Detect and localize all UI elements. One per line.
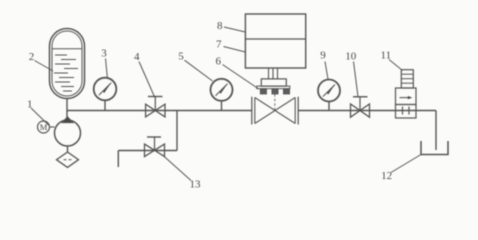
- gauge 3: [94, 78, 117, 111]
- svg-text:10: 10: [345, 51, 357, 63]
- throttle valve 11: [396, 70, 417, 118]
- actuator stems: [269, 68, 278, 79]
- accumulator 2: [50, 29, 85, 99]
- motor M: [38, 121, 55, 133]
- svg-text:13: 13: [190, 178, 202, 190]
- svg-text:1: 1: [27, 99, 33, 111]
- wire branch line: [118, 150, 177, 152]
- tank 12: [421, 141, 448, 155]
- wire branch open end: [117, 151, 119, 168]
- wire main line left segment: [67, 110, 252, 112]
- filter diamond: [57, 152, 79, 167]
- svg-text:12: 12: [381, 170, 392, 182]
- svg-text:3: 3: [101, 48, 107, 60]
- leader 11: [389, 60, 403, 71]
- leader 6: [223, 65, 259, 89]
- wire accumulator stem: [66, 99, 68, 118]
- leader 8: [224, 27, 245, 32]
- valve 4: [146, 97, 165, 117]
- leader 9: [325, 62, 328, 80]
- valve 13: [145, 137, 165, 157]
- test valve 6 body: [252, 94, 298, 125]
- svg-text:5: 5: [178, 50, 184, 62]
- leader 12: [391, 155, 421, 173]
- svg-text:2: 2: [29, 51, 35, 63]
- leader 10: [354, 62, 359, 97]
- svg-text:6: 6: [215, 55, 221, 67]
- leader 13: [163, 155, 192, 181]
- svg-text:11: 11: [381, 50, 392, 62]
- actuator box 8: [245, 14, 305, 68]
- node branch junction: [176, 111, 178, 151]
- leader 2: [35, 61, 54, 72]
- wire down pipe to tank: [435, 111, 437, 151]
- mounting flange 6: [257, 79, 290, 94]
- valve 10: [351, 97, 370, 117]
- svg-text:4: 4: [134, 51, 140, 63]
- svg-text:7: 7: [216, 39, 222, 51]
- leader 4: [139, 62, 155, 98]
- leader 3: [106, 59, 108, 80]
- leader 5: [185, 60, 213, 81]
- actuator divider 7: [245, 38, 305, 40]
- wire main line right segment: [298, 110, 436, 112]
- leader 1: [31, 108, 49, 126]
- svg-text:9: 9: [320, 50, 326, 62]
- gauge 9: [318, 80, 340, 111]
- pump 1: [55, 117, 81, 146]
- wire pump to filter: [67, 146, 69, 152]
- gauge 5: [211, 79, 233, 111]
- svg-text:8: 8: [217, 20, 223, 32]
- leader 7: [224, 47, 246, 53]
